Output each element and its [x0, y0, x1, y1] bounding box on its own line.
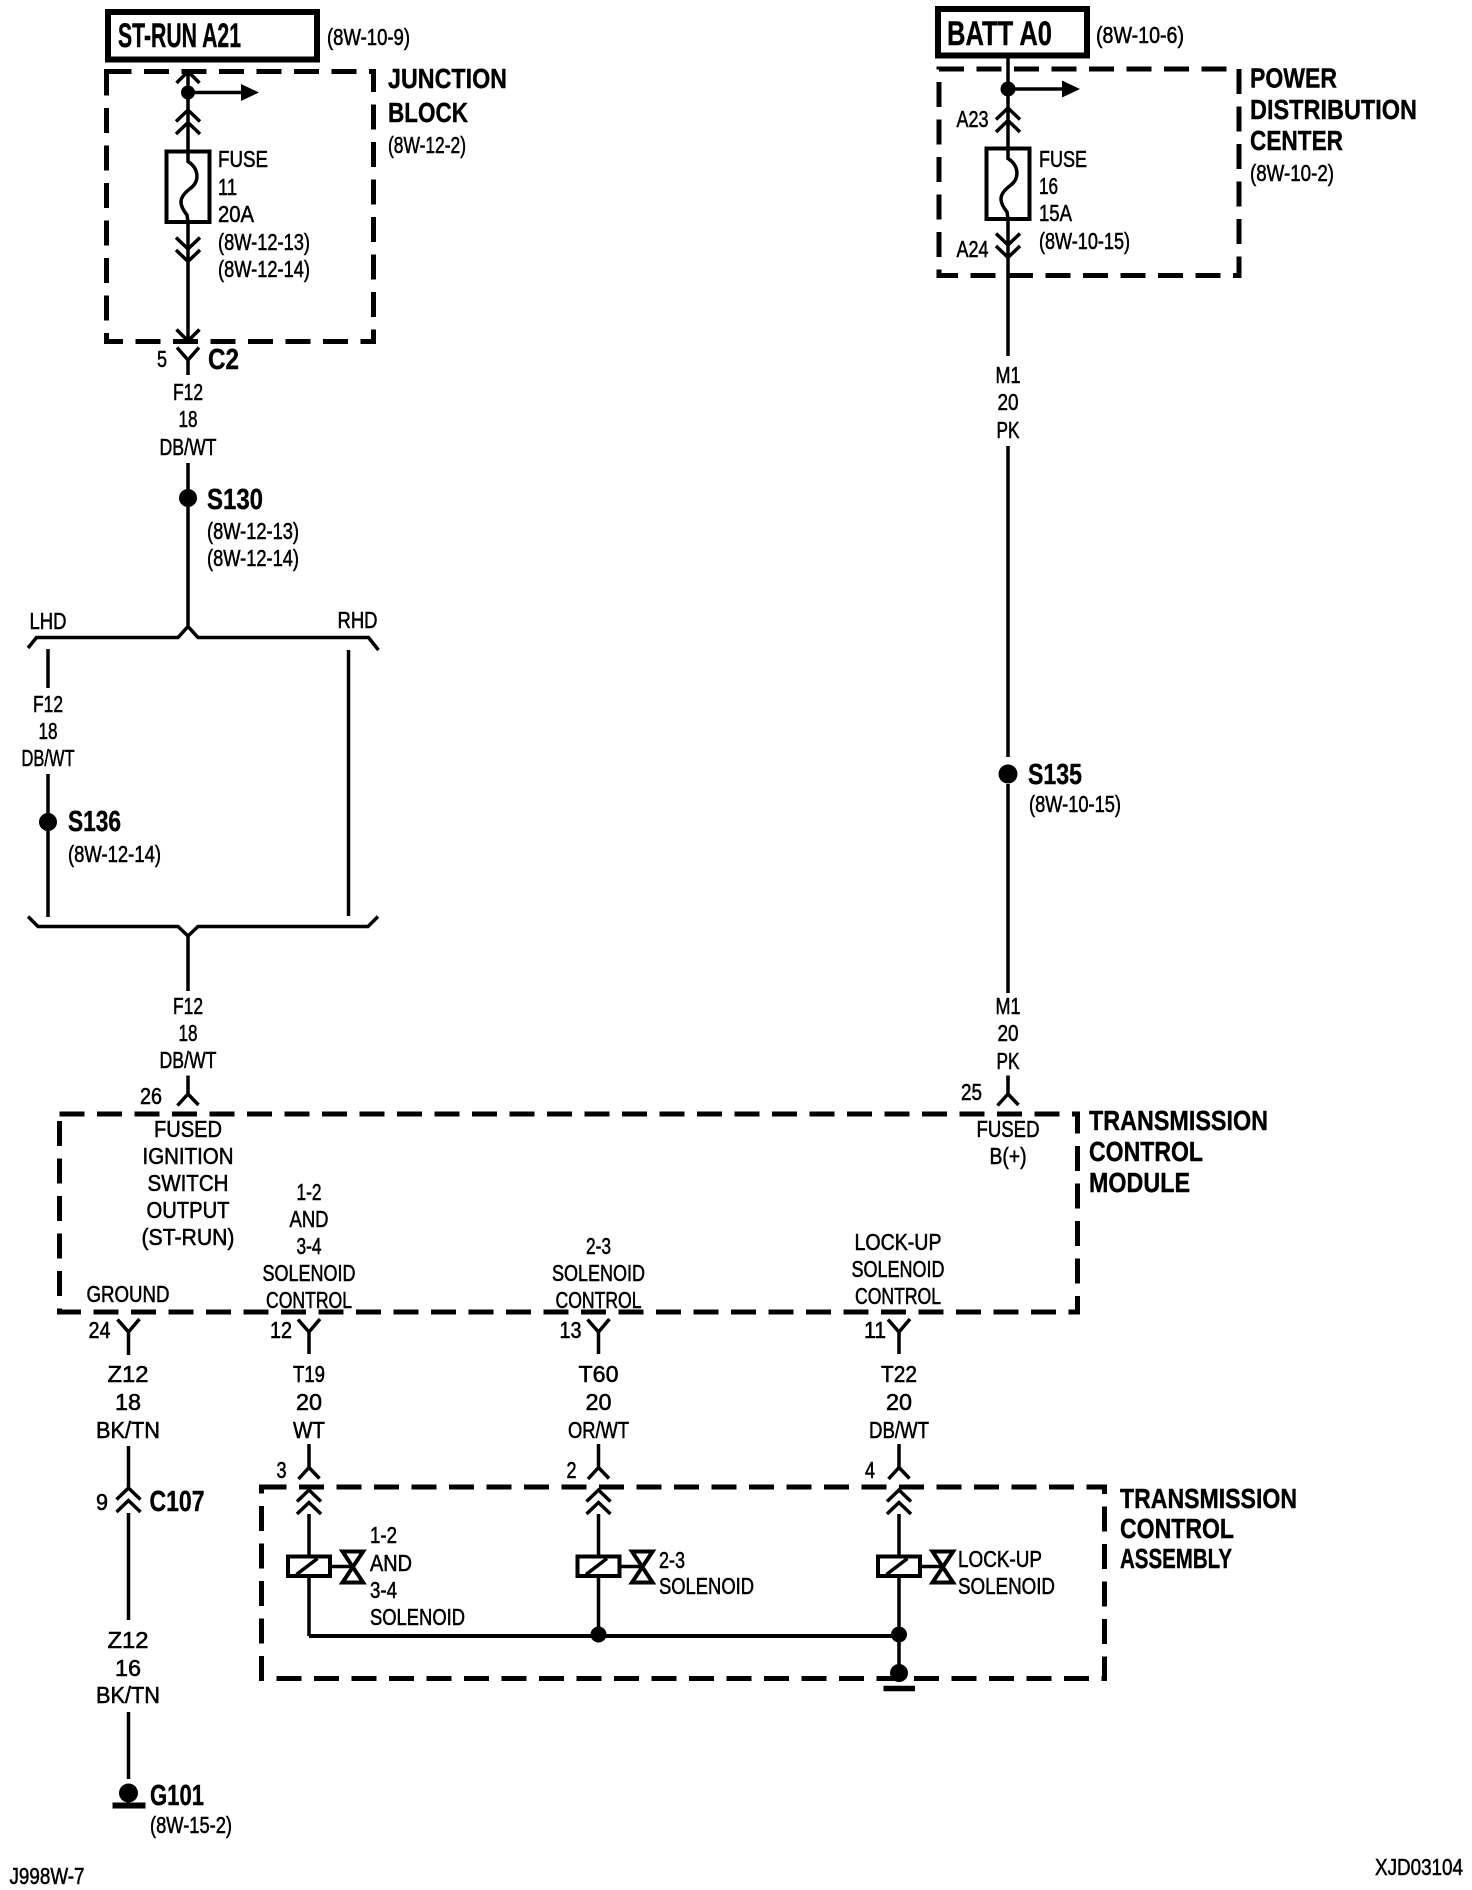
svg-text:FUSE: FUSE: [1039, 146, 1087, 172]
svg-text:(8W-15-2): (8W-15-2): [150, 1812, 232, 1838]
transmission control module dashed box: [60, 1114, 1078, 1312]
arrow: battery feed to other circuits: [1008, 87, 1063, 91]
svg-text:24: 24: [89, 1317, 111, 1343]
svg-text:20: 20: [998, 389, 1019, 415]
svg-text:CONTROL: CONTROL: [855, 1283, 941, 1309]
svg-text:20: 20: [886, 1389, 912, 1415]
svg-text:T19: T19: [293, 1361, 325, 1387]
wire: C107 to Z12 16 label: [127, 1513, 131, 1620]
node: battery feed dot: [1001, 82, 1016, 97]
svg-text:3-4: 3-4: [297, 1233, 322, 1259]
power distribution center dashed box: [939, 69, 1239, 276]
svg-text:(8W-10-6): (8W-10-6): [1096, 22, 1184, 48]
svg-text:IGNITION: IGNITION: [143, 1143, 234, 1169]
TCA pin 2: [588, 1444, 609, 1479]
svg-text:3: 3: [277, 1457, 287, 1483]
wire: BATT A0 into PDC: [1006, 58, 1010, 148]
fuse 11 20A: [167, 152, 210, 223]
splice S135: [999, 765, 1018, 784]
connector chevrons A23: [996, 108, 1020, 120]
connector chevrons A24: [996, 234, 1020, 246]
svg-text:OR/WT: OR/WT: [568, 1417, 629, 1443]
svg-text:AND: AND: [370, 1550, 412, 1576]
wire: solenoid 1-2/3-4 to bus: [307, 1576, 311, 1636]
svg-text:SOLENOID: SOLENOID: [552, 1260, 645, 1286]
svg-text:C107: C107: [150, 1486, 205, 1518]
svg-text:18: 18: [115, 1389, 141, 1415]
svg-text:SOLENOID: SOLENOID: [958, 1573, 1055, 1599]
case ground at TCA: [890, 1664, 908, 1682]
wire: lock-up solenoid to case ground: [897, 1576, 901, 1668]
wire: LHD branch to splice S136: [46, 774, 50, 813]
connector chevrons below fuse 11: [176, 238, 200, 250]
svg-text:(8W-10-2): (8W-10-2): [1250, 160, 1334, 186]
svg-text:ASSEMBLY: ASSEMBLY: [1120, 1543, 1232, 1574]
LHD/RHD merge brace: [28, 917, 378, 937]
svg-text:13: 13: [560, 1317, 582, 1343]
svg-text:BK/TN: BK/TN: [96, 1417, 160, 1443]
svg-text:CONTROL: CONTROL: [1120, 1513, 1234, 1544]
svg-text:16: 16: [115, 1655, 141, 1681]
svg-text:CONTROL: CONTROL: [556, 1287, 642, 1313]
TCM pin 12: [298, 1319, 320, 1354]
svg-text:S135: S135: [1028, 759, 1082, 791]
wire: ST-RUN feed into junction block: [177, 72, 200, 84]
svg-text:A23: A23: [957, 106, 989, 132]
svg-text:TRANSMISSION: TRANSMISSION: [1120, 1483, 1297, 1514]
transmission control assembly dashed box: [262, 1487, 1105, 1679]
wire: to splice S135: [1006, 446, 1010, 757]
svg-text:LHD: LHD: [30, 608, 67, 634]
TCM pin 26: [178, 1076, 199, 1106]
svg-text:BATT A0: BATT A0: [947, 15, 1052, 53]
svg-text:Z12: Z12: [108, 1627, 149, 1653]
svg-text:16: 16: [1039, 173, 1058, 199]
svg-text:M1: M1: [996, 362, 1021, 388]
svg-text:DB/WT: DB/WT: [22, 745, 75, 771]
wire: pin 24 to connector C107: [127, 1446, 131, 1488]
svg-text:(8W-12-13): (8W-12-13): [218, 229, 310, 255]
svg-text:20A: 20A: [218, 201, 255, 227]
svg-text:DB/WT: DB/WT: [160, 434, 217, 460]
svg-text:CENTER: CENTER: [1250, 125, 1343, 156]
svg-text:12: 12: [270, 1317, 292, 1343]
svg-text:S130: S130: [207, 484, 263, 516]
solenoid 2-3 coil and valve: [578, 1557, 620, 1577]
svg-text:26: 26: [140, 1083, 162, 1109]
wire: fuse 11 to connector C2: [186, 222, 190, 341]
wire: to TCM pin 25: [1006, 1076, 1010, 1080]
lock-up solenoid coil and valve: [878, 1557, 920, 1577]
svg-text:OUTPUT: OUTPUT: [147, 1197, 230, 1223]
TCA pin 4: [889, 1444, 910, 1479]
svg-text:3-4: 3-4: [370, 1577, 397, 1603]
svg-text:SOLENOID: SOLENOID: [852, 1256, 945, 1282]
svg-text:(8W-12-14): (8W-12-14): [218, 256, 310, 282]
svg-text:25: 25: [961, 1079, 982, 1105]
svg-text:JUNCTION: JUNCTION: [388, 63, 507, 94]
svg-text:BLOCK: BLOCK: [388, 97, 468, 128]
svg-text:T60: T60: [579, 1361, 619, 1387]
svg-text:15A: 15A: [1039, 200, 1073, 226]
TCM pin 11: [888, 1319, 910, 1354]
svg-text:11: 11: [218, 174, 237, 200]
LHD/RHD split brace: [28, 627, 379, 651]
bus wire joining solenoids: [309, 1634, 899, 1638]
wire: LHD branch upper segment: [46, 649, 50, 688]
wire: C2 to splice S130: [186, 463, 190, 489]
svg-text:XJD03104: XJD03104: [1375, 1854, 1463, 1880]
svg-text:18: 18: [179, 406, 198, 432]
svg-text:DISTRIBUTION: DISTRIBUTION: [1250, 94, 1417, 125]
svg-text:(8W-10-9): (8W-10-9): [327, 24, 410, 50]
svg-text:F12: F12: [33, 691, 63, 717]
svg-text:(8W-12-14): (8W-12-14): [68, 841, 161, 867]
wire: S136 to merge brace: [46, 831, 50, 917]
svg-text:GROUND: GROUND: [87, 1281, 170, 1307]
feed box ST-RUN A21: [108, 12, 317, 60]
svg-text:(ST-RUN): (ST-RUN): [142, 1224, 235, 1250]
connector C2 pin 5: [177, 348, 199, 376]
svg-text:5: 5: [157, 346, 167, 372]
TCM pin 25: [998, 1076, 1019, 1106]
svg-text:T22: T22: [881, 1361, 917, 1387]
svg-text:FUSE: FUSE: [218, 146, 268, 172]
svg-text:DB/WT: DB/WT: [869, 1417, 929, 1443]
svg-text:(8W-10-15): (8W-10-15): [1039, 228, 1130, 254]
svg-text:Z12: Z12: [108, 1361, 149, 1387]
wire: TCA pin 3 to solenoid coil: [307, 1514, 311, 1558]
wire: solenoid 2-3 to bus: [597, 1576, 601, 1636]
svg-text:9: 9: [96, 1489, 108, 1515]
svg-text:(8W-12-2): (8W-12-2): [388, 132, 466, 158]
svg-text:LOCK-UP: LOCK-UP: [855, 1229, 942, 1255]
splice S130: [179, 489, 197, 507]
node: feed junction dot: [181, 86, 195, 100]
svg-text:ST-RUN A21: ST-RUN A21: [118, 17, 241, 55]
wire: S135 to M1 label: [1006, 784, 1010, 993]
svg-text:SOLENOID: SOLENOID: [370, 1604, 465, 1630]
svg-text:M1: M1: [996, 993, 1021, 1019]
svg-text:RHD: RHD: [338, 607, 378, 633]
svg-text:1-2: 1-2: [370, 1522, 397, 1548]
wire: RHD branch: [347, 650, 351, 916]
feed box BATT A0: [938, 9, 1087, 56]
svg-text:SOLENOID: SOLENOID: [263, 1260, 356, 1286]
wire: merge to TCM pin 26: [186, 936, 190, 991]
svg-text:FUSED: FUSED: [154, 1116, 222, 1142]
svg-text:(8W-12-14): (8W-12-14): [207, 545, 299, 571]
svg-text:2-3: 2-3: [659, 1547, 685, 1573]
svg-text:C2: C2: [208, 344, 239, 376]
svg-text:A24: A24: [957, 236, 989, 262]
svg-text:20: 20: [296, 1389, 322, 1415]
svg-text:B(+): B(+): [990, 1143, 1027, 1169]
svg-text:TRANSMISSION: TRANSMISSION: [1089, 1105, 1268, 1136]
svg-text:1-2: 1-2: [297, 1179, 322, 1205]
wire: S130 to LHD/RHD split: [186, 507, 190, 627]
wire: TCA pin 4 to solenoid coil: [897, 1514, 901, 1558]
svg-text:MODULE: MODULE: [1089, 1167, 1190, 1198]
svg-text:PK: PK: [997, 417, 1020, 443]
svg-text:(8W-12-13): (8W-12-13): [207, 518, 299, 544]
connector chevrons below TCA pin 4: [887, 1490, 911, 1502]
arrow: feed to other circuits: [188, 91, 242, 95]
svg-text:DB/WT: DB/WT: [160, 1047, 217, 1073]
TCM pin 13: [588, 1319, 610, 1354]
wire: TCA pin 2 to solenoid coil: [597, 1514, 601, 1558]
svg-text:4: 4: [865, 1457, 875, 1483]
connector chevrons below TCA pin 3: [297, 1490, 321, 1502]
svg-text:(8W-10-15): (8W-10-15): [1029, 791, 1121, 817]
svg-text:WT: WT: [293, 1417, 325, 1443]
wire: to ground G101: [127, 1712, 131, 1779]
svg-text:F12: F12: [173, 993, 203, 1019]
svg-text:FUSED: FUSED: [977, 1116, 1040, 1142]
svg-text:SWITCH: SWITCH: [148, 1170, 229, 1196]
svg-text:POWER: POWER: [1250, 63, 1337, 94]
svg-text:11: 11: [864, 1317, 886, 1343]
svg-text:18: 18: [179, 1020, 198, 1046]
connector C107 pin 9: [117, 1488, 141, 1500]
fuse 16 15A: [987, 149, 1030, 220]
junction block dashed box: [107, 72, 374, 342]
svg-text:J998W-7: J998W-7: [10, 1863, 85, 1889]
svg-text:CONTROL: CONTROL: [266, 1287, 352, 1313]
svg-text:SOLENOID: SOLENOID: [659, 1573, 754, 1599]
svg-text:G101: G101: [150, 1780, 204, 1812]
svg-text:2-3: 2-3: [586, 1233, 611, 1259]
svg-text:20: 20: [998, 1020, 1019, 1046]
TCM pin 24: [118, 1319, 140, 1355]
svg-text:PK: PK: [997, 1048, 1020, 1074]
TCA pin 3: [299, 1444, 320, 1479]
node: bus junction at lock-up solenoid: [891, 1627, 907, 1643]
svg-text:20: 20: [586, 1389, 612, 1415]
svg-text:AND: AND: [290, 1206, 329, 1232]
svg-text:F12: F12: [173, 379, 203, 405]
splice S136: [39, 813, 57, 831]
wire: fuse 16 out of PDC: [1006, 219, 1010, 356]
solenoid 1-2 and 3-4 coil and valve: [288, 1557, 330, 1577]
svg-text:CONTROL: CONTROL: [1089, 1136, 1203, 1167]
svg-text:2: 2: [567, 1457, 577, 1483]
node: bus junction at 2-3 solenoid: [591, 1627, 607, 1643]
ground G101: [119, 1784, 138, 1803]
svg-text:LOCK-UP: LOCK-UP: [958, 1546, 1042, 1572]
connector chevrons inside junction block: [176, 110, 200, 122]
svg-text:18: 18: [39, 718, 58, 744]
svg-text:S136: S136: [68, 806, 121, 838]
svg-text:BK/TN: BK/TN: [96, 1682, 160, 1708]
connector chevrons below TCA pin 2: [587, 1490, 611, 1502]
